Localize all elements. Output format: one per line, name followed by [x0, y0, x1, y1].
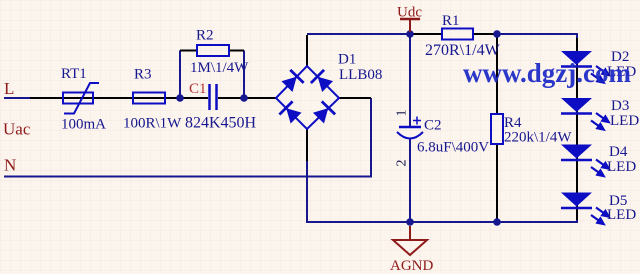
- svg-text:LED: LED: [607, 159, 636, 175]
- svg-text:824K450H: 824K450H: [185, 115, 257, 132]
- svg-text:LED: LED: [607, 207, 636, 223]
- svg-text:C1: C1: [189, 81, 207, 97]
- svg-text:R1: R1: [442, 13, 460, 29]
- svg-text:D1: D1: [338, 52, 356, 68]
- svg-text:100R\1W: 100R\1W: [123, 116, 182, 132]
- svg-text:L: L: [4, 79, 14, 98]
- svg-text:www.dgzj.com: www.dgzj.com: [463, 58, 631, 88]
- svg-text:D3: D3: [611, 98, 629, 114]
- svg-text:C2: C2: [424, 118, 442, 134]
- svg-text:220k\1/4W: 220k\1/4W: [504, 130, 572, 146]
- svg-text:Udc: Udc: [397, 5, 422, 21]
- svg-text:100mA: 100mA: [61, 117, 106, 133]
- svg-text:D4: D4: [609, 144, 628, 160]
- svg-text:LED: LED: [610, 113, 639, 129]
- svg-text:AGND: AGND: [390, 258, 433, 274]
- svg-text:RT1: RT1: [61, 66, 87, 82]
- svg-text:N: N: [4, 156, 16, 175]
- svg-text:2: 2: [395, 160, 410, 167]
- svg-text:LLB08: LLB08: [339, 67, 382, 83]
- svg-text:R3: R3: [134, 67, 152, 83]
- svg-text:270R\1/4W: 270R\1/4W: [425, 42, 501, 59]
- svg-text:R2: R2: [196, 28, 214, 44]
- svg-text:6.8uF\400V: 6.8uF\400V: [417, 140, 489, 156]
- svg-text:1M\1/4W: 1M\1/4W: [190, 60, 249, 76]
- svg-text:1: 1: [395, 110, 410, 117]
- svg-text:Uac: Uac: [3, 120, 31, 139]
